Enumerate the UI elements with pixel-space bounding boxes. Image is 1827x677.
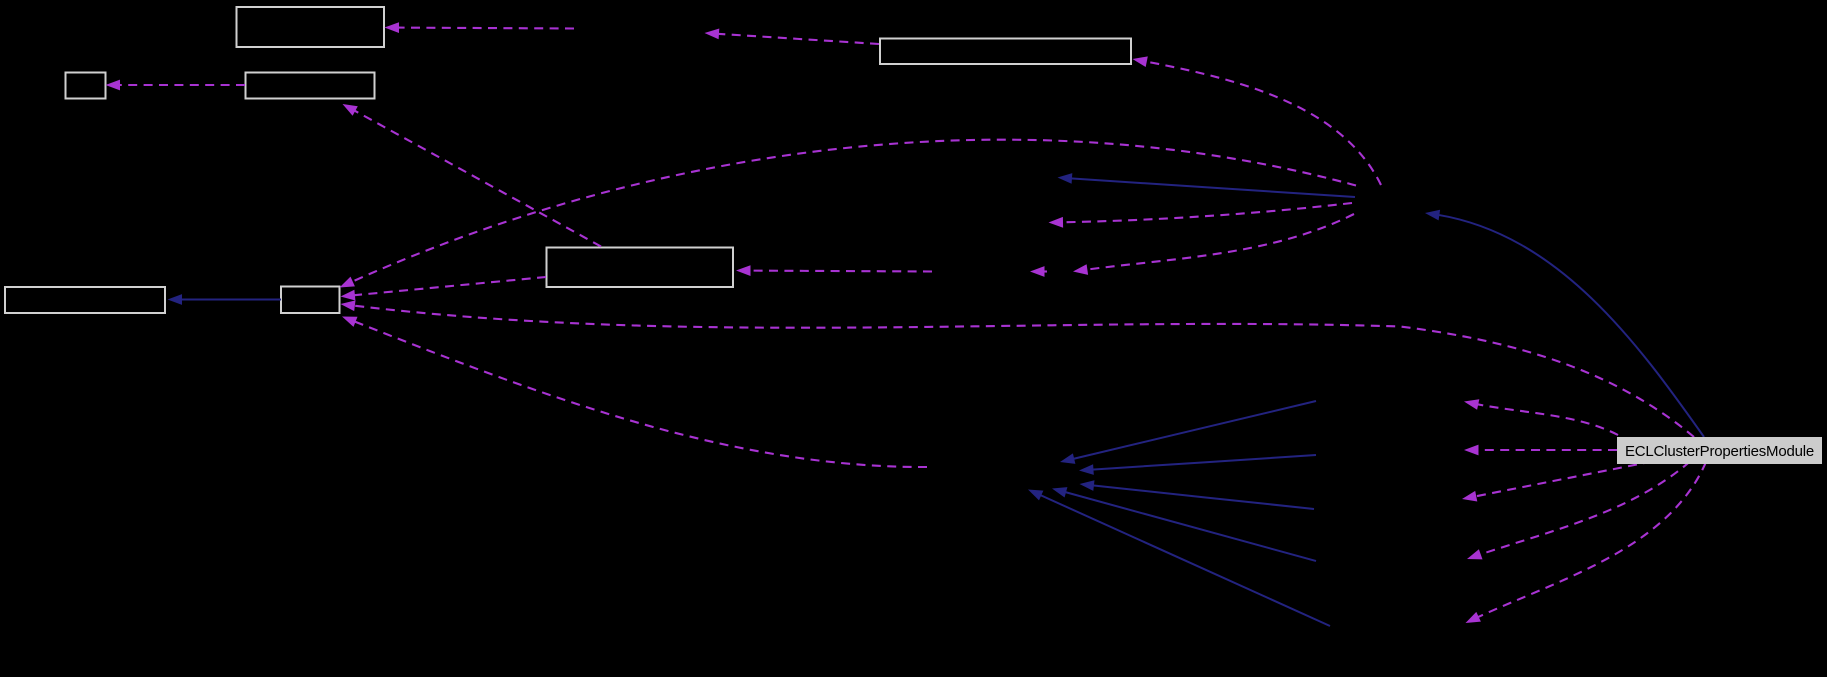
dashed edge hub to B7 [1133,56,1382,185]
dashed edge ECLClusterPropertiesModule to hidden node A [1464,399,1618,435]
dashed edge into B1 from hidden node [385,22,575,33]
dashed edge ECLClusterPropertiesModule to hidden node C [1462,462,1652,502]
solid edge hidden right node 4 to hidden left node [1052,487,1316,561]
dashed edge B6 to B5 [341,277,547,301]
dashed edge hub to hidden node N4 [1073,214,1354,275]
dashed edge ECLClusterPropertiesModule to hidden node D [1467,462,1690,560]
short dashed edge between hidden nodes [1030,266,1047,277]
dashed edge ECLClusterPropertiesModule to hidden node B [1464,445,1617,456]
node box B6 (middle, unlabeled) [547,248,734,288]
solid edge B5 to B4 [168,294,282,305]
solid edge hidden right node 3 to hidden left node [1080,480,1315,509]
dashed edge B2 to B3 [106,80,246,91]
node box B2 (unlabeled) [246,73,375,99]
solid edge hidden right node 5 to hidden left node [1028,490,1330,627]
dashed edge ECLClusterPropertiesModule to hidden node E [1466,462,1707,623]
solid edge hub to hidden node N2 [1058,173,1356,197]
node box B4 (left, unlabeled) [5,287,165,313]
dashed edge hub to hidden node N3 [1049,203,1353,228]
dashed edge ECLClusterPropertiesModule to B5 (long middle line) [341,300,1695,437]
solid edge ECLClusterPropertiesModule to hub [1425,210,1704,437]
dashed edge hidden node to B6 [736,265,932,276]
node box B5 (small hub, unlabeled) [281,287,340,314]
dashed edge B6 to B2 [343,104,602,247]
solid edge hidden right node 1 to hidden left node [1060,401,1316,464]
dashed edge B7 to hidden node [705,29,880,45]
svg-text:ECLClusterPropertiesModule: ECLClusterPropertiesModule [1625,443,1814,460]
node box B3 (small, unlabeled) [66,73,106,99]
dashed edge hidden node to B5 (lower curve) [342,317,927,468]
dashed edge hub to B5 (long top curve) [340,140,1357,288]
node box ECLClusterPropertiesModule (current node, gray) [1617,437,1822,464]
solid edge hidden right node 2 to hidden left node [1079,455,1316,475]
node box B1 (top-left, unlabeled) [237,7,385,47]
node box B7 (top, unlabeled) [880,39,1131,65]
